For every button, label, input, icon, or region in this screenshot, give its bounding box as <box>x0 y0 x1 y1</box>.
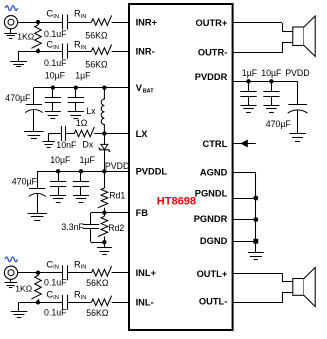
capacitor C_IN (INR+) 0.1uF <box>63 15 68 30</box>
svg-text:10µF: 10µF <box>50 155 71 165</box>
op-amp U1 HT8698 class-D amplifier IC body <box>129 4 233 330</box>
label Rd1 <box>109 191 125 201</box>
label C_IN (INL-) <box>46 290 59 301</box>
label 470uF (VBAT) <box>5 93 31 103</box>
svg-text:DGND: DGND <box>200 236 228 246</box>
label 0.1uF (INR+) <box>44 29 67 39</box>
wire C_IN to R_IN (INR+) <box>67 22 91 24</box>
capacitor 1uF (VBAT) with ground <box>68 88 84 119</box>
label 0.1uF (INL+) <box>44 277 67 287</box>
capacitor 470uF (VBAT bulk) <box>25 88 42 132</box>
ground (470uF PVDDL) <box>28 214 47 221</box>
audio source sine icon (right channel) <box>5 6 17 11</box>
svg-text:470µF: 470µF <box>266 119 292 129</box>
capacitor 10uF (VBAT) with ground <box>45 88 61 119</box>
label 10uF (VBAT) <box>45 71 66 81</box>
svg-text:BAT: BAT <box>143 89 155 95</box>
input jack J1 (right channel) <box>4 16 17 29</box>
svg-text:470µF: 470µF <box>12 176 38 186</box>
input jack J2 (left channel) <box>4 266 17 279</box>
label 0.1uF (INL-) <box>44 307 67 317</box>
svg-text:0.1uF: 0.1uF <box>44 277 67 287</box>
resistor R_IN (INR-) 56K <box>92 45 112 55</box>
label 1uF (PVDDL) <box>80 155 96 165</box>
capacitor C_IN (INL+) 0.1uF <box>63 265 68 280</box>
diode Dx (schottky) <box>99 134 111 172</box>
label 1uF (VBAT) <box>75 71 91 81</box>
node junction FB <box>102 210 106 214</box>
node junction VBAT/Lx <box>102 85 106 89</box>
capacitor 470uF (PVDDR bulk) <box>288 81 308 134</box>
label Dx <box>83 139 94 149</box>
capacitor 1uF (PVDDL) with ground <box>73 171 89 202</box>
label 1 Ohm <box>76 118 88 128</box>
label HT8698 <box>157 196 196 208</box>
svg-text:56KΩ: 56KΩ <box>86 308 109 318</box>
wire R_IN to pin INL- <box>112 302 130 304</box>
svg-text:1Ω: 1Ω <box>76 118 88 128</box>
svg-text:56KΩ: 56KΩ <box>85 31 108 41</box>
capacitor 10uF (PVDDR) with ground <box>263 81 279 112</box>
wire PVDDL rail <box>37 171 129 173</box>
resistor R_IN (INR+) 56K <box>92 15 112 25</box>
label C_IN (INR+) <box>46 9 59 20</box>
capacitor 10nF (snubber) <box>62 126 75 141</box>
label 56KOhm (INR+) <box>85 31 108 41</box>
inductor Lx <box>101 88 104 134</box>
ground (470uF PVDDR) <box>289 134 306 142</box>
wire C_IN to R_IN (INL+) <box>67 272 91 274</box>
node junction at R1 top <box>36 20 40 24</box>
svg-text:1KΩ: 1KΩ <box>15 284 33 294</box>
ground (470uF VBAT) <box>24 132 43 139</box>
wire LX to pin <box>104 133 129 135</box>
svg-text:HT8698: HT8698 <box>157 196 196 208</box>
svg-text:CTRL: CTRL <box>203 139 228 149</box>
label 1KOhm (left) <box>15 284 33 294</box>
wire jack to C_IN (INL+) <box>18 272 63 274</box>
svg-text:PVDD: PVDD <box>105 161 129 171</box>
svg-text:OUTL+: OUTL+ <box>197 269 228 279</box>
ground (under jack J2) <box>4 279 17 287</box>
label 10uF (PVDDR) <box>261 68 282 78</box>
svg-text:1µF: 1µF <box>80 155 96 165</box>
wire PVDDR rail <box>233 81 298 83</box>
svg-text:1µF: 1µF <box>242 68 258 78</box>
svg-text:IN: IN <box>81 14 87 20</box>
svg-text:PVDD: PVDD <box>285 68 309 78</box>
wire to ground (INL- bias) <box>19 302 39 311</box>
node junction PVDDL/1uF <box>79 169 83 173</box>
capacitor 1uF (PVDDR) with ground <box>240 81 256 112</box>
label 56KOhm (INR-) <box>85 59 108 69</box>
wire DGND to bus <box>233 239 259 244</box>
capacitor 470uF (PVDDL bulk) <box>29 171 46 213</box>
ground (INL- input) <box>11 312 28 318</box>
svg-text:FB: FB <box>136 208 149 218</box>
wire to ground (INR- bias) <box>19 51 39 61</box>
resistor 1K (input termination, left) <box>31 273 41 303</box>
svg-text:INR+: INR+ <box>136 17 158 27</box>
node junction at R2 bottom <box>36 300 40 304</box>
label 0.1uF (INR-) <box>44 58 67 68</box>
svg-text:Dx: Dx <box>83 139 94 149</box>
svg-text:PGNDL: PGNDL <box>195 188 228 198</box>
wire snubber cap to ground <box>49 134 62 142</box>
node junction VBAT/10uF <box>51 85 55 89</box>
node junction at R2 top <box>36 271 40 275</box>
svg-text:OUTR-: OUTR- <box>198 47 227 57</box>
label C_IN (INR-) <box>46 40 59 51</box>
node junction PVDDL/10uF <box>56 169 60 173</box>
svg-text:Rd1: Rd1 <box>109 191 125 201</box>
speaker (left channel) <box>293 268 315 307</box>
label C_IN (INL+) <box>46 259 59 270</box>
resistor Rd2 <box>98 213 108 243</box>
svg-text:PGNDR: PGNDR <box>194 214 228 224</box>
wire OUTL- to speaker <box>233 292 293 303</box>
label Lx <box>86 106 96 116</box>
node junction PVDDR/10uF <box>269 79 273 83</box>
svg-text:10µF: 10µF <box>261 68 282 78</box>
svg-text:470µF: 470µF <box>5 93 31 103</box>
wire OUTL+ to speaker <box>233 273 293 282</box>
wire R_IN to pin INR+ <box>112 22 130 24</box>
svg-text:LX: LX <box>136 129 149 139</box>
capacitor 10uF (PVDDL) with ground <box>50 171 66 202</box>
label 1uF (PVDDR) <box>242 68 258 78</box>
wire junction to C_IN (INR-) <box>38 51 63 53</box>
svg-text:IN: IN <box>81 45 87 51</box>
resistor 1K (input termination, right) <box>31 22 41 51</box>
ground (snubber) <box>42 142 54 148</box>
wire C_IN to R_IN (INL-) <box>67 302 91 304</box>
svg-text:0.1uF: 0.1uF <box>44 58 67 68</box>
node junction PVDDL/diode <box>102 169 106 173</box>
svg-text:1KΩ: 1KΩ <box>17 31 35 41</box>
wire R_IN to pin INR- <box>112 51 130 53</box>
svg-text:Lx: Lx <box>86 106 96 116</box>
ground (INR- input) <box>10 62 27 67</box>
wire CTRL input with arrow <box>233 140 256 146</box>
wire OUTR- to speaker <box>233 43 293 53</box>
node junction Rd2 bottom <box>102 240 106 244</box>
label 1KOhm <box>17 31 35 41</box>
audio source sine icon (left channel) <box>5 257 17 262</box>
svg-text:AGND: AGND <box>200 168 228 178</box>
wire PGNDL to bus <box>233 196 259 201</box>
label 10uF (PVDDL) <box>50 155 71 165</box>
wire FB to pin <box>104 212 129 214</box>
svg-text:56KΩ: 56KΩ <box>86 278 109 288</box>
capacitor 3.3nF (feedback) <box>83 213 105 243</box>
ground (GND bus) <box>248 253 264 260</box>
svg-text:INR-: INR- <box>136 47 155 57</box>
label 10nF <box>56 140 77 150</box>
label 56KOhm (INL+) <box>86 278 109 288</box>
capacitor C_IN (INL-) 0.1uF <box>63 295 68 310</box>
svg-text:IN: IN <box>53 265 59 271</box>
svg-text:OUTR+: OUTR+ <box>196 18 228 28</box>
ground (under jack J1) <box>4 29 17 39</box>
resistor R_IN (INL+) 56K <box>92 266 112 276</box>
svg-text:10µF: 10µF <box>45 71 66 81</box>
svg-text:IN: IN <box>81 295 87 301</box>
label R_IN (INL+) <box>74 259 87 270</box>
svg-text:0.1uF: 0.1uF <box>44 29 67 39</box>
resistor Rd1 <box>98 171 108 212</box>
label 470uF (PVDDL) <box>12 176 38 186</box>
svg-text:IN: IN <box>53 14 59 20</box>
label R_IN (INL-) <box>74 290 87 301</box>
node junction VBAT/1uF <box>74 85 78 89</box>
svg-text:1µF: 1µF <box>75 71 91 81</box>
svg-text:IN: IN <box>81 265 87 271</box>
wire R_IN to pin INL+ <box>112 272 130 274</box>
wire VBAT rail <box>34 87 129 89</box>
ground (Rd2) <box>97 242 112 254</box>
svg-text:OUTL-: OUTL- <box>199 297 227 307</box>
label R_IN (INR+) <box>74 9 87 20</box>
svg-text:3.3nF: 3.3nF <box>61 222 84 232</box>
wire jack to C_IN (INR+) <box>18 22 63 24</box>
wire AGND to ground bus <box>233 173 256 253</box>
label R_IN (INR-) <box>74 40 87 51</box>
pin labels right side <box>194 18 228 307</box>
resistor R_IN (INL-) 56K <box>92 296 112 306</box>
svg-text:INL-: INL- <box>136 298 154 308</box>
svg-text:56KΩ: 56KΩ <box>85 59 108 69</box>
svg-text:0.1uF: 0.1uF <box>44 307 67 317</box>
resistor 1 Ohm (snubber) <box>74 127 104 137</box>
pin labels left side <box>136 17 168 307</box>
wire C_IN to R_IN (INR-) <box>67 51 91 53</box>
svg-text:PVDDL: PVDDL <box>136 167 168 177</box>
node junction LX <box>102 131 106 135</box>
node junction at R1 bottom <box>36 49 40 53</box>
svg-text:10nF: 10nF <box>56 140 77 150</box>
label 3.3nF <box>61 222 84 232</box>
label PVDD node <box>105 161 129 171</box>
label 470uF (PVDDR) <box>266 119 292 129</box>
node junction PVDDR/1uF <box>246 79 250 83</box>
wire junction to C_IN (INL-) <box>38 302 63 304</box>
svg-text:IN: IN <box>53 295 59 301</box>
label 56KOhm (INL-) <box>86 308 109 318</box>
wire PGNDR to bus <box>233 217 259 222</box>
wire OUTR+ to speaker <box>233 23 293 32</box>
label Rd2 <box>108 223 124 233</box>
svg-text:INL+: INL+ <box>136 268 157 278</box>
speaker (right channel) <box>293 16 315 56</box>
label PVDD (right) <box>285 68 309 78</box>
svg-text:PVDDR: PVDDR <box>195 72 228 82</box>
svg-text:IN: IN <box>53 45 59 51</box>
capacitor C_IN (INR-) 0.1uF <box>63 44 68 59</box>
svg-text:Rd2: Rd2 <box>108 223 124 233</box>
